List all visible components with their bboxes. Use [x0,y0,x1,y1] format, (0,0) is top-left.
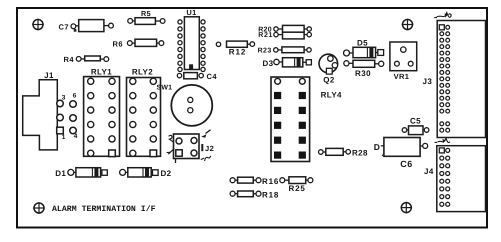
connector J2 [167,130,215,163]
resistor R25 [280,177,313,193]
resistor R23 [258,47,312,55]
resistor R30 [344,60,384,78]
potentiometer VR1 [390,42,417,81]
diode D2 [120,168,172,178]
capacitor C7 [59,20,114,32]
resistor R18 [230,190,279,199]
svg-text:C6: C6 [400,159,413,169]
svg-text:ALARM TERMINATION I/F: ALARM TERMINATION I/F [52,205,156,214]
mounting hole top-left [32,19,44,31]
resistor R16 [230,177,279,186]
resistor R12 [216,41,254,56]
svg-text:D3: D3 [263,59,274,68]
mounting hole top-right [402,19,414,31]
svg-text:R5: R5 [141,9,151,18]
transistor Q2 [319,54,338,84]
svg-text:J4: J4 [424,167,434,176]
svg-text:R18: R18 [262,190,279,199]
svg-text:J2: J2 [205,144,214,153]
svg-text:R4: R4 [64,55,75,64]
svg-text:C5: C5 [410,116,421,125]
relay RLY2 [127,68,161,157]
svg-text:R6: R6 [113,40,123,49]
svg-text:C7: C7 [59,22,69,31]
svg-text:VR1: VR1 [394,72,410,81]
diode D1 [55,168,107,178]
mounting hole bottom-right [401,202,413,214]
resistor R28 [319,148,369,157]
relay RLY1 [84,68,120,157]
resistor R5 [128,9,165,24]
diode D5 [344,39,384,58]
svg-text:RLY1: RLY1 [91,68,112,77]
svg-text:R23: R23 [258,48,272,55]
capacitor C4 [177,72,217,81]
svg-text:R16: R16 [262,177,279,186]
svg-text:J3: J3 [423,77,433,86]
op-amp U1 [178,8,205,72]
svg-text:D2: D2 [161,169,172,178]
svg-text:R25: R25 [289,184,306,193]
svg-text:R12: R12 [229,47,246,56]
diode D4 [374,142,386,159]
resistor R21 [258,32,311,39]
svg-text:U1: U1 [186,8,196,17]
capacitor C5 [402,116,429,134]
connector J4 [424,138,486,211]
resistor R20 [258,25,311,33]
svg-text:J1: J1 [44,71,54,80]
svg-text:RLY4: RLY4 [321,91,342,100]
svg-text:4: 4 [74,133,78,140]
svg-text:6: 6 [73,93,77,100]
mounting hole bottom-left [33,202,45,214]
svg-text:R21: R21 [258,32,273,39]
relay RLY4 [271,77,342,162]
switch SW1 [157,85,213,126]
svg-text:D5: D5 [357,39,368,48]
diode D3 [263,58,312,68]
svg-text:1: 1 [62,134,66,141]
connector J1 [23,71,78,150]
svg-text:SW1: SW1 [157,85,173,92]
svg-text:R30: R30 [355,69,371,78]
svg-text:Q2: Q2 [323,76,335,85]
svg-text:D1: D1 [55,169,66,178]
svg-text:RLY2: RLY2 [132,68,153,77]
connector J3 [423,13,486,138]
resistor R6 [113,39,164,48]
svg-text:C4: C4 [207,72,218,81]
capacitor C6 [384,138,428,169]
svg-text:D: D [374,142,380,152]
svg-text:R28: R28 [352,148,368,157]
resistor R4 [64,55,109,64]
